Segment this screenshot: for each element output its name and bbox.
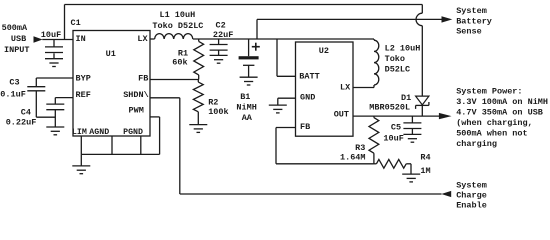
wire LX U2 to L2 — [353, 85, 374, 88]
pin LX label U2 — [340, 82, 351, 92]
label C4 value — [6, 107, 37, 127]
wire FB U2 loop — [276, 128, 374, 164]
battery B1 NiMH AA — [239, 39, 259, 77]
label System Battery Sense — [456, 6, 492, 37]
wire D1 column to anode — [421, 26, 423, 96]
svg-text:C3: C3 — [9, 77, 19, 87]
svg-text:LX: LX — [137, 34, 148, 44]
battery plus sign — [252, 43, 260, 51]
capacitor C5 10uF — [403, 116, 421, 128]
svg-text:MBR0520L: MBR0520L — [369, 103, 410, 113]
arrow System Battery Sense output — [442, 16, 453, 22]
svg-text:60k: 60k — [172, 58, 187, 68]
pin LX label — [137, 34, 148, 44]
wire battery sense riser — [256, 19, 258, 39]
wire IN input — [42, 39, 73, 41]
svg-text:R3: R3 — [355, 143, 365, 153]
ground under C1 — [45, 53, 63, 66]
svg-text:Toko: Toko — [385, 54, 405, 64]
label C3 value — [0, 77, 26, 99]
svg-text:SHDN\: SHDN\ — [123, 90, 149, 100]
svg-text:C2: C2 — [216, 21, 226, 31]
wire D1 column upper — [421, 5, 423, 14]
pin SHDN\ label — [123, 90, 149, 100]
pin OUT label — [334, 110, 349, 120]
wire USB input riser up to top rail — [64, 5, 66, 40]
label System Charge Enable — [456, 180, 487, 210]
svg-text:10uF: 10uF — [383, 133, 403, 143]
ground under C5 — [403, 129, 421, 143]
ground under C4 — [46, 127, 64, 135]
svg-text:C1: C1 — [71, 18, 81, 28]
resistor R4 1M — [374, 159, 411, 168]
wire ground bus under U1 — [81, 153, 159, 155]
arrow System Power output — [439, 113, 452, 119]
wire LIM stub — [80, 136, 82, 154]
wire battery rail from L1 to L2 — [193, 38, 374, 40]
svg-text:IN: IN — [76, 34, 86, 44]
pin BATT label — [299, 71, 319, 81]
svg-text:0.1uF: 0.1uF — [0, 89, 26, 99]
pin BYP label — [76, 74, 91, 84]
svg-text:System: System — [456, 180, 487, 190]
wire REF — [55, 97, 73, 99]
svg-text:FB: FB — [138, 74, 148, 84]
pin LIM label — [72, 128, 87, 137]
svg-text:USB: USB — [11, 34, 26, 44]
ground under R2 — [189, 125, 207, 133]
inductor L2 10uH Toko D52LC — [374, 39, 379, 85]
capacitor C3 0.1uF — [27, 78, 45, 91]
svg-text:PGND: PGND — [123, 128, 143, 137]
label C2 value — [213, 21, 233, 41]
label R1 value — [172, 49, 188, 68]
svg-text:4.7V 350mA on USB: 4.7V 350mA on USB — [456, 108, 543, 118]
pin FB label — [138, 74, 148, 84]
op-amp U2 charger box — [296, 42, 354, 136]
svg-text:Sense: Sense — [456, 27, 482, 37]
label L2 value — [385, 44, 421, 75]
pin PWM label — [129, 106, 144, 116]
capacitor C1 10uF — [45, 40, 63, 53]
wire OUT rail — [353, 115, 439, 117]
label C1 value — [41, 18, 81, 40]
wire top rail from USB input node to D1 anode column — [65, 4, 423, 6]
svg-text:(when charging,: (when charging, — [456, 118, 533, 128]
wire R4 to ground — [410, 164, 412, 174]
ground under U1 bus — [72, 154, 90, 173]
label 500mA USB INPUT — [2, 23, 30, 55]
ground under B1 — [240, 77, 258, 85]
pin AGND label — [89, 128, 109, 137]
wire GND U2 — [278, 98, 296, 105]
svg-text:OUT: OUT — [334, 110, 349, 120]
svg-text:charging: charging — [456, 139, 497, 149]
label R4 value — [420, 153, 430, 176]
resistor R2 100k — [193, 80, 203, 125]
svg-text:10uF: 10uF — [41, 30, 61, 40]
wire C4 bottom to ground — [54, 110, 56, 127]
svg-text:22uF: 22uF — [213, 30, 233, 40]
pin GND label — [300, 92, 315, 102]
svg-text:D1: D1 — [401, 93, 411, 103]
svg-text:Battery: Battery — [456, 17, 492, 27]
wire battery sense line — [257, 18, 442, 20]
svg-text:U1: U1 — [106, 49, 116, 59]
svg-text:INPUT: INPUT — [4, 45, 30, 55]
svg-text:LX: LX — [340, 82, 351, 92]
wire hop over battery sense line — [416, 13, 422, 26]
label L1 value — [152, 10, 203, 31]
svg-text:500mA: 500mA — [2, 23, 28, 33]
svg-text:R2: R2 — [208, 97, 218, 107]
svg-text:AA: AA — [242, 113, 253, 123]
svg-text:AGND: AGND — [89, 128, 109, 137]
svg-text:C4: C4 — [21, 107, 31, 117]
svg-text:1M: 1M — [420, 166, 430, 176]
label System Power block — [456, 87, 548, 150]
wire BATT riser — [277, 39, 296, 76]
svg-text:R4: R4 — [420, 153, 430, 163]
svg-text:PWM: PWM — [129, 106, 144, 116]
svg-text:B1: B1 — [240, 92, 250, 102]
wire PWM to ground bus — [150, 117, 160, 154]
resistor R3 1.64M — [369, 116, 379, 164]
svg-text:L2 10uH: L2 10uH — [385, 44, 421, 54]
label R3 value — [340, 143, 366, 163]
wire FB U1 — [150, 79, 199, 81]
svg-text:0.22uF: 0.22uF — [6, 117, 37, 127]
resistor R1 60k — [194, 39, 204, 80]
svg-text:D52LC: D52LC — [385, 65, 411, 75]
op-amp U1 boost converter box — [73, 31, 150, 137]
svg-text:NiMH: NiMH — [236, 102, 256, 112]
svg-text:U2: U2 — [319, 46, 329, 56]
svg-text:BYP: BYP — [76, 74, 91, 84]
svg-text:1.64M: 1.64M — [340, 153, 366, 163]
svg-text:C5: C5 — [391, 123, 401, 133]
svg-text:3.3V 100mA on NiMH: 3.3V 100mA on NiMH — [456, 97, 548, 107]
ground under C2 — [210, 50, 228, 63]
pin IN label — [76, 34, 86, 44]
svg-text:Enable: Enable — [456, 200, 487, 210]
input arrow (500mA USB INPUT) — [34, 36, 43, 42]
wire D1 cathode to OUT rail — [421, 105, 423, 116]
label C5 value — [383, 123, 403, 144]
arrow System Charge Enable input — [441, 191, 451, 197]
svg-text:Toko D52LC: Toko D52LC — [152, 21, 203, 31]
svg-text:L1 10uH: L1 10uH — [160, 10, 196, 20]
label U1 — [106, 49, 116, 59]
ground under R4 — [402, 174, 420, 182]
svg-text:REF: REF — [76, 90, 91, 100]
capacitor C2 22uF — [210, 39, 228, 50]
pin PGND label — [123, 128, 143, 137]
wire C3 bottom to C4 bottom — [36, 91, 55, 117]
svg-text:FB: FB — [300, 122, 310, 132]
label D1 value — [369, 93, 411, 113]
wire LX to L1 — [150, 38, 155, 40]
svg-text:LIM: LIM — [72, 128, 87, 137]
svg-text:500mA when not: 500mA when not — [456, 129, 527, 139]
ground at U2 GND — [269, 105, 287, 113]
svg-text:System: System — [456, 6, 487, 16]
svg-text:100k: 100k — [208, 107, 228, 117]
label R2 value — [208, 97, 228, 117]
svg-text:BATT: BATT — [299, 71, 319, 81]
wire SHDN\ to charge enable — [150, 98, 442, 194]
pin FB label U2 — [300, 122, 310, 132]
wire PGND stub — [140, 136, 142, 154]
pin REF label — [76, 90, 91, 100]
svg-text:GND: GND — [300, 92, 315, 102]
wire BYP — [36, 77, 73, 79]
label U2 — [319, 46, 329, 56]
svg-text:Charge: Charge — [456, 190, 487, 200]
inductor L1 10uH Toko D52LC — [155, 34, 193, 39]
label B1 value — [236, 92, 256, 123]
svg-text:System Power:: System Power: — [456, 87, 522, 97]
diode D1 MBR0520L schottky — [416, 96, 429, 109]
wire AGND stub — [111, 136, 113, 154]
capacitor C4 0.22uF — [46, 98, 64, 110]
